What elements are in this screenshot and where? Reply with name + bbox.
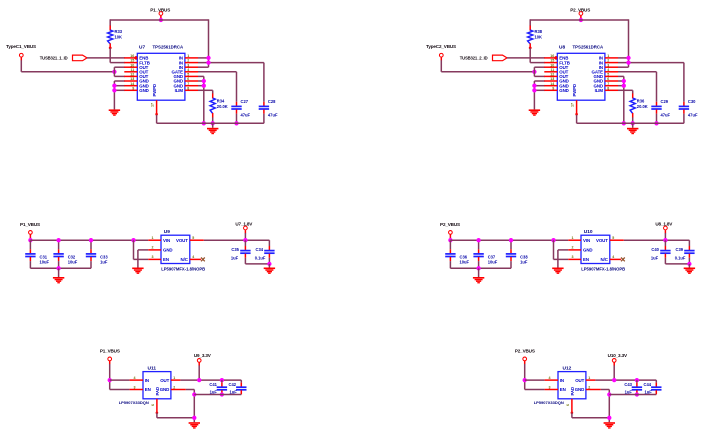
svg-text:C44: C44 (644, 382, 652, 387)
pin 4 GATE (605, 71, 618, 73)
wire flag stub (244, 233, 246, 240)
pin 1 OUT (586, 379, 596, 381)
wire TypeC2_VBUS to OUT bus (440, 60, 442, 72)
pin 8 ILIM (605, 89, 618, 91)
svg-text:GND: GND (160, 387, 169, 392)
pin 6 GND (605, 80, 618, 82)
svg-text:3: 3 (549, 385, 551, 389)
svg-text:LP5907X33DQN: LP5907X33DQN (534, 400, 564, 405)
pin 15 FLTB (124, 62, 137, 64)
svg-text:TUSB321_2_ID: TUSB321_2_ID (460, 56, 488, 61)
no-connect X (621, 258, 625, 262)
svg-text:C42: C42 (229, 382, 237, 387)
svg-text:C40: C40 (651, 247, 659, 252)
wire input (109, 364, 111, 390)
pin 7 GND (605, 85, 618, 87)
junction (211, 121, 215, 125)
svg-text:U12: U12 (563, 366, 572, 372)
capacitor C38 (510, 240, 512, 249)
svg-text:9: 9 (132, 86, 134, 90)
svg-text:P1_VBUS: P1_VBUS (100, 348, 120, 353)
wire GND bus left (533, 81, 535, 109)
pin 16 ENB (124, 57, 137, 59)
wire to EN (110, 389, 130, 391)
ground (684, 268, 695, 274)
svg-text:10K: 10K (115, 35, 123, 40)
port TUSB321_1_ID (73, 55, 88, 61)
svg-text:C43: C43 (624, 382, 632, 387)
svg-text:P1_VBUS: P1_VBUS (20, 222, 40, 227)
wire top rail (110, 19, 208, 21)
junction (206, 56, 210, 60)
IC U10 LP5907MFX-1.8/NOPB (581, 235, 610, 263)
junction (635, 392, 639, 396)
svg-text:ILIM: ILIM (175, 88, 184, 93)
capacitor C40 (664, 240, 666, 246)
svg-text:3: 3 (134, 385, 136, 389)
svg-text:17: 17 (571, 103, 575, 107)
capacitor C29 (656, 72, 658, 102)
svg-text:2: 2 (173, 385, 175, 389)
pin 4 NC (190, 258, 201, 260)
svg-text:U11: U11 (148, 366, 157, 372)
svg-text:14: 14 (130, 82, 134, 86)
wire output gnd (245, 263, 269, 265)
ground (189, 422, 200, 428)
svg-text:3: 3 (572, 255, 574, 259)
pin 1 IN (185, 57, 198, 59)
junction (234, 121, 238, 125)
svg-text:17: 17 (151, 103, 155, 107)
wire left vertical (109, 19, 111, 26)
junction ENB pin (134, 56, 138, 60)
no-connect X (201, 258, 205, 262)
capacitor C35 (244, 240, 246, 246)
svg-text:ILIM: ILIM (595, 88, 604, 93)
svg-text:1: 1 (607, 54, 609, 58)
ground (53, 277, 64, 283)
svg-text:13: 13 (550, 77, 554, 81)
svg-text:2: 2 (187, 59, 189, 63)
capacitor C32 (58, 240, 60, 249)
svg-text:7: 7 (607, 82, 609, 86)
capacitor C37 (478, 240, 480, 249)
junction (197, 378, 201, 382)
wire to IN (110, 379, 130, 381)
pin 1 IN (605, 57, 618, 59)
svg-text:10uF: 10uF (40, 260, 50, 265)
pin 12 OUT (544, 75, 557, 77)
svg-text:11: 11 (130, 68, 134, 72)
svg-text:1: 1 (152, 236, 154, 240)
wire R33 bottom to FLTB row (109, 48, 111, 63)
svg-text:1uF: 1uF (230, 389, 238, 394)
wire output gnd (665, 263, 689, 265)
wire GND pin to ground (138, 249, 148, 251)
capacitor C44 (655, 380, 657, 382)
junction (663, 238, 667, 242)
port TUSB321_2_ID (493, 55, 508, 61)
svg-text:U10_3.3V: U10_3.3V (608, 353, 628, 358)
pin 10 OUT (544, 66, 557, 68)
wire GATE to C1 (618, 71, 657, 73)
svg-text:LP5907MFX-1.8/NOPB: LP5907MFX-1.8/NOPB (581, 267, 625, 272)
svg-text:2: 2 (572, 246, 574, 250)
svg-text:PWPD: PWPD (152, 84, 157, 97)
capacitor C41 (221, 380, 223, 383)
ground (552, 268, 563, 274)
junction gnd bus (112, 88, 116, 92)
pin 2 GND (568, 249, 581, 251)
junction (687, 262, 691, 266)
pin 9 GND (544, 89, 557, 91)
junction (607, 392, 611, 396)
svg-text:TPS2561DRCA: TPS2561DRCA (573, 45, 605, 50)
resistor R36 (632, 93, 634, 98)
IC U8 TPS2561DRCA (557, 53, 605, 100)
pin 4 IN (545, 379, 558, 381)
svg-text:4: 4 (607, 68, 609, 72)
svg-text:R34: R34 (217, 99, 225, 104)
svg-text:3: 3 (187, 63, 189, 67)
junction (56, 266, 60, 270)
svg-text:IN: IN (145, 378, 149, 383)
wire cap gnd rail (609, 394, 656, 396)
capacitor C36 (449, 240, 451, 249)
junction (626, 56, 630, 60)
svg-text:1uF: 1uF (520, 260, 528, 265)
junction (192, 416, 196, 420)
svg-text:0.1uF: 0.1uF (255, 255, 266, 260)
svg-text:10: 10 (550, 63, 554, 67)
svg-text:R38: R38 (535, 29, 543, 34)
wire to IN (525, 379, 545, 381)
svg-text:1: 1 (572, 236, 574, 240)
capacitor C31 (29, 240, 31, 249)
capacitor C42 (240, 380, 242, 382)
svg-text:U9_3.3V: U9_3.3V (194, 353, 212, 358)
pin 11 OUT (124, 71, 137, 73)
svg-text:EN: EN (560, 387, 566, 392)
svg-text:47uF: 47uF (661, 112, 671, 117)
capacitor C43 (636, 380, 638, 383)
svg-text:PWPD: PWPD (572, 84, 577, 97)
junction gnd bus (532, 84, 536, 88)
wire gnd stub (632, 123, 634, 128)
junction resistor bottom (529, 47, 532, 50)
junction (243, 238, 247, 242)
svg-text:EN: EN (145, 387, 151, 392)
wire gnd stub (268, 264, 270, 268)
pin 1 OUT (171, 379, 181, 381)
wire resistor to rail (632, 117, 634, 123)
wire P1_VBUS stub (160, 18, 162, 20)
pin 14 GND (544, 85, 557, 87)
capacitor C28 (263, 63, 265, 102)
junction pad stub (155, 113, 158, 116)
svg-text:OUT: OUT (575, 378, 584, 383)
svg-text:10K: 10K (535, 35, 543, 40)
svg-text:R33: R33 (115, 29, 123, 34)
pin 1 VIN (568, 239, 581, 241)
svg-text:16: 16 (130, 54, 134, 58)
junction (509, 238, 513, 242)
pin 5 GND (185, 75, 198, 77)
svg-text:VOUT: VOUT (176, 238, 188, 243)
ground (473, 277, 484, 283)
pin 13 GND (544, 80, 557, 82)
svg-text:5: 5 (612, 236, 614, 240)
svg-text:11: 11 (550, 68, 554, 72)
junction (612, 378, 616, 382)
junction pad stub (571, 412, 574, 415)
wire IN bus (628, 19, 630, 67)
junction (523, 378, 527, 382)
pin 2 IN (185, 62, 198, 64)
svg-text:1uF: 1uF (651, 255, 659, 260)
wire VOUT rail (624, 239, 690, 241)
wire gnd bus right (198, 75, 204, 77)
capacitor C33 (90, 240, 92, 249)
svg-text:12: 12 (550, 73, 554, 77)
wire IN row1 (198, 57, 209, 59)
svg-text:1uF: 1uF (100, 260, 108, 265)
pin 3 EN (148, 258, 161, 260)
svg-text:C34: C34 (256, 247, 264, 252)
junction OUT node (112, 70, 116, 74)
svg-text:1uF: 1uF (645, 389, 653, 394)
svg-text:20.0K: 20.0K (637, 104, 648, 109)
wire pad loop (156, 413, 158, 418)
wire GND net (186, 389, 195, 391)
svg-text:1: 1 (588, 376, 590, 380)
svg-text:C27: C27 (241, 99, 249, 104)
IC U7 TPS2561DRCA (137, 53, 185, 100)
svg-text:TUSB321_1_ID: TUSB321_1_ID (40, 56, 68, 61)
svg-text:5: 5 (187, 73, 189, 77)
wire ILIM to resistor (198, 89, 213, 91)
svg-text:1uF: 1uF (231, 255, 239, 260)
wire input gnd rail (450, 267, 511, 269)
wire GND pin to ground (558, 249, 568, 251)
svg-text:EN: EN (583, 257, 589, 262)
svg-text:3: 3 (607, 63, 609, 67)
svg-text:10: 10 (130, 63, 134, 67)
svg-text:GND: GND (139, 88, 148, 93)
svg-text:PAD: PAD (570, 387, 575, 396)
junction pad stub (575, 113, 578, 116)
pin 11 OUT (544, 71, 557, 73)
junction (202, 79, 206, 83)
svg-text:N/C: N/C (181, 257, 189, 262)
svg-text:9: 9 (552, 86, 554, 90)
svg-text:15: 15 (550, 59, 554, 63)
pin 4 IN (130, 379, 143, 381)
svg-text:2: 2 (152, 246, 154, 250)
svg-text:6: 6 (151, 404, 155, 406)
svg-text:U7: U7 (139, 45, 145, 51)
pin 5 VOUT (190, 239, 204, 241)
ground (207, 128, 218, 134)
wire IN bus (208, 19, 210, 67)
svg-text:1: 1 (173, 376, 175, 380)
wire gnd stub (688, 264, 690, 268)
svg-text:U10: U10 (584, 229, 593, 235)
pin 3 IN (605, 66, 618, 68)
junction gnd bus (112, 84, 116, 88)
junction (28, 238, 32, 242)
pin 13 GND (124, 80, 137, 82)
wire OUT rail (595, 379, 656, 381)
pin 5 GND (605, 75, 618, 77)
wire gnd bus right (618, 75, 624, 77)
wire flag stub (29, 237, 31, 240)
wire OUT bus (533, 67, 535, 76)
wire OUT rail (180, 379, 241, 381)
ground (109, 109, 120, 115)
pin 15 FLTB (544, 62, 557, 64)
svg-text:U7_1.8V: U7_1.8V (235, 222, 253, 227)
junction (267, 262, 271, 266)
capacitor C30 (683, 63, 685, 102)
svg-text:R36: R36 (637, 99, 645, 104)
svg-text:16: 16 (550, 54, 554, 58)
svg-text:EN: EN (163, 257, 169, 262)
svg-text:C39: C39 (676, 247, 684, 252)
svg-text:PAD: PAD (155, 387, 160, 396)
svg-text:4: 4 (187, 68, 189, 72)
wire gnd stub (58, 268, 60, 277)
pin 12 OUT (124, 75, 137, 77)
ground (627, 128, 638, 134)
svg-text:N/C: N/C (601, 257, 609, 262)
IC U9 LP5907MFX-1.8/NOPB (161, 235, 190, 263)
svg-text:2: 2 (588, 385, 590, 389)
svg-text:IN: IN (560, 378, 564, 383)
svg-text:4: 4 (134, 376, 136, 380)
wire VOUT rail (204, 239, 270, 241)
wire ILIM to resistor (618, 89, 633, 91)
wire pad to rail (156, 115, 158, 124)
svg-text:GND: GND (163, 248, 172, 253)
junction (622, 79, 626, 83)
svg-text:C28: C28 (268, 99, 276, 104)
svg-text:P2_VBUS: P2_VBUS (440, 222, 460, 227)
svg-text:4: 4 (192, 255, 194, 259)
junction (622, 84, 626, 88)
pin 9 GND (124, 89, 137, 91)
wire IN row2 to C2 (198, 62, 264, 64)
wire OUT bus (113, 67, 115, 76)
junction (626, 60, 630, 64)
wire TypeC1_VBUS to OUT bus (20, 60, 22, 72)
svg-text:10uF: 10uF (460, 260, 470, 265)
junction (159, 18, 163, 22)
svg-text:8: 8 (607, 86, 609, 90)
svg-text:U9: U9 (164, 229, 170, 235)
wire EN tap (553, 240, 555, 259)
junction OUT node (532, 70, 536, 74)
svg-text:6: 6 (566, 404, 570, 406)
wire flag stub (664, 233, 666, 240)
wire IN row2 to C2 (618, 62, 684, 64)
wire input (524, 364, 526, 390)
svg-text:P2_VBUS: P2_VBUS (515, 348, 535, 353)
resistor R33 (109, 26, 111, 31)
pin 1 VIN (148, 239, 161, 241)
junction ENB pin (554, 56, 558, 60)
svg-text:VOUT: VOUT (596, 238, 608, 243)
pin 8 ILIM (185, 89, 198, 91)
wire EN tap (133, 240, 135, 259)
junction gnd rail (622, 121, 626, 125)
svg-text:GND: GND (575, 387, 584, 392)
svg-text:10uF: 10uF (488, 260, 498, 265)
wire input rail (30, 239, 148, 241)
wire bottom rail (157, 122, 264, 124)
junction (476, 238, 480, 242)
svg-text:OUT: OUT (160, 378, 169, 383)
ground (604, 422, 615, 428)
wire gnd stub (212, 123, 214, 128)
junction (654, 121, 658, 125)
svg-text:4: 4 (549, 376, 551, 380)
capacitor C27 (236, 72, 238, 102)
junction (89, 238, 93, 242)
pin 4 NC (610, 258, 621, 260)
svg-text:4: 4 (612, 255, 614, 259)
svg-text:C41: C41 (209, 382, 217, 387)
IC U11 LP5907X33DQN (143, 372, 171, 399)
svg-text:VIN: VIN (163, 238, 170, 243)
wire port to ENB (507, 57, 545, 59)
junction (108, 378, 112, 382)
pin 2 GND (586, 389, 601, 391)
junction gnd rail (202, 121, 206, 125)
junction pad stub (156, 412, 159, 415)
ground (264, 268, 275, 274)
svg-text:GND: GND (559, 88, 568, 93)
wire resistor to rail (212, 117, 214, 123)
wire flag stub (198, 365, 200, 380)
wire cap gnd rail (194, 394, 241, 396)
wire GATE to C1 (198, 71, 237, 73)
wire input gnd rail (30, 267, 91, 269)
svg-text:13: 13 (130, 77, 134, 81)
svg-text:C29: C29 (661, 99, 669, 104)
capacitor C34 (268, 240, 270, 244)
wire flag stub (449, 237, 451, 240)
wire P2_VBUS stub (580, 18, 582, 20)
junction (220, 378, 224, 382)
pin 3 IN (185, 66, 198, 68)
svg-text:GND: GND (583, 248, 592, 253)
svg-text:7: 7 (187, 82, 189, 86)
pin 7 GND (185, 85, 198, 87)
junction gnd bus (532, 88, 536, 92)
junction EN tap (551, 238, 555, 242)
junction (206, 60, 210, 64)
pin 2 IN (605, 62, 618, 64)
pin 3 EN (545, 389, 558, 391)
svg-text:5: 5 (607, 73, 609, 77)
junction (631, 121, 635, 125)
junction (202, 84, 206, 88)
pin 4 GATE (185, 71, 198, 73)
svg-text:8: 8 (187, 86, 189, 90)
wire flag stub (613, 365, 615, 380)
svg-text:47uF: 47uF (241, 112, 251, 117)
